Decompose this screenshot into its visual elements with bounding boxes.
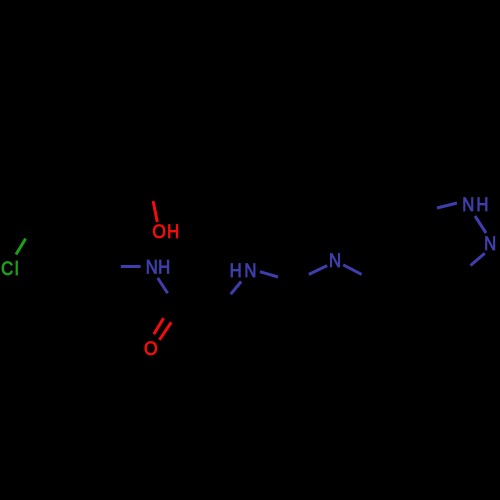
svg-text:N: N bbox=[329, 250, 341, 271]
svg-text:H: H bbox=[167, 221, 179, 242]
svg-text:N: N bbox=[462, 194, 474, 215]
svg-text:H: H bbox=[230, 260, 242, 281]
svg-text:H: H bbox=[476, 194, 488, 215]
svg-text:N: N bbox=[484, 233, 496, 254]
svg-text:N: N bbox=[244, 260, 256, 281]
svg-text:O: O bbox=[144, 337, 158, 359]
svg-text:N: N bbox=[146, 257, 158, 278]
svg-text:H: H bbox=[158, 257, 170, 278]
svg-text:O: O bbox=[152, 220, 166, 242]
svg-text:C: C bbox=[1, 258, 13, 279]
svg-text:l: l bbox=[15, 258, 19, 279]
